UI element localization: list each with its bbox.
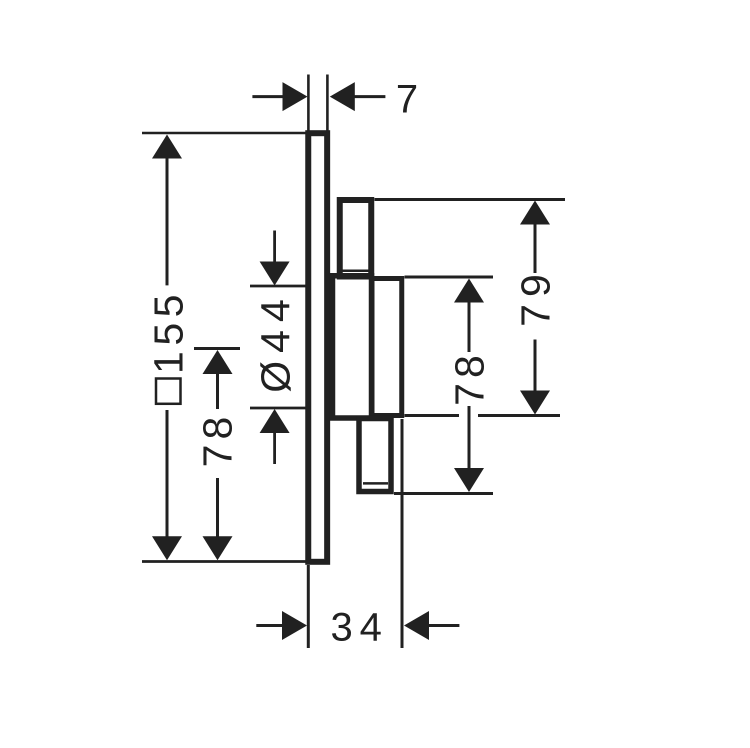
middle body rear section (333, 276, 372, 418)
lower block inner line (363, 482, 388, 485)
dim 79: bottom extension wire left part (405, 414, 460, 417)
dim 155: bottom arrowhead (152, 536, 182, 560)
dim 34: right arrowhead (404, 611, 429, 640)
dim 79: top arrowhead (520, 201, 550, 225)
svg-text:155: 155 (146, 289, 192, 374)
dim 44: lower arrowhead (points up) (260, 409, 290, 433)
dim 34: left tail wire (256, 624, 284, 627)
svg-text:34: 34 (330, 605, 389, 649)
dim 44: upper stub wire (273, 231, 276, 264)
wall plate (escutcheon, side view) (308, 133, 327, 562)
dim 44: top tick wire (250, 285, 306, 288)
dim 78 right: bottom arrowhead (454, 468, 484, 492)
dim 155/78: bottom extension wire (142, 560, 306, 563)
dim 78 left: lower wire (216, 478, 219, 537)
dim 79: upper wire (534, 224, 537, 273)
dim 7: left extension line (307, 75, 310, 134)
dim 79: lower wire (534, 340, 537, 392)
dim 78 right: top arrowhead (454, 279, 484, 303)
dim 155: lower wire (166, 410, 169, 538)
dim 7: right arrowhead (330, 82, 355, 111)
dim 7: right tail wire (355, 95, 386, 98)
dim 44: upper arrowhead (points down) (260, 262, 290, 286)
dim 34: right extension wire (401, 419, 404, 648)
dim 34: left extension wire (307, 565, 310, 648)
dim 78 right: lower wire (468, 406, 471, 469)
svg-text:7: 7 (396, 78, 418, 122)
dim 155: upper wire (166, 157, 169, 285)
middle body front cap (372, 279, 402, 416)
label square 155: square symbol (156, 379, 181, 404)
dim 78 left: bottom arrowhead (203, 536, 233, 560)
dim 78 right: top extension wire (405, 276, 494, 279)
dim 7: right extension line (326, 75, 329, 134)
dim 155: top arrowhead (152, 135, 182, 159)
lower block (volume handle) (359, 419, 391, 492)
dim 78 right: upper wire (468, 302, 471, 353)
dim 34: left arrowhead (282, 611, 307, 640)
dim 7: left arrowhead (283, 82, 308, 111)
dim 155: top extension wire (142, 132, 306, 135)
svg-text:78: 78 (195, 412, 241, 468)
dim 78 left: upper wire (216, 373, 219, 409)
dim 79: bottom extension wire right part (478, 414, 560, 417)
svg-text:78: 78 (447, 350, 493, 406)
dim 79: bottom arrowhead (520, 391, 550, 415)
upper block inner line (341, 269, 370, 272)
dim 78 right: bottom extension wire (394, 492, 493, 495)
upper block (stop valve handle) (340, 200, 372, 277)
dim 44: lower stub wire (273, 431, 276, 464)
dim 78 left: top arrowhead (203, 350, 233, 374)
svg-text:Ø44: Ø44 (253, 291, 299, 393)
dim 7: left tail wire (252, 95, 284, 98)
dim 78 left: top tick wire (194, 347, 240, 350)
dim 34: right tail wire (428, 624, 459, 627)
dim 79: top extension wire (375, 198, 566, 201)
dim 44: bottom tick wire (250, 407, 306, 410)
svg-text:79: 79 (513, 267, 559, 327)
